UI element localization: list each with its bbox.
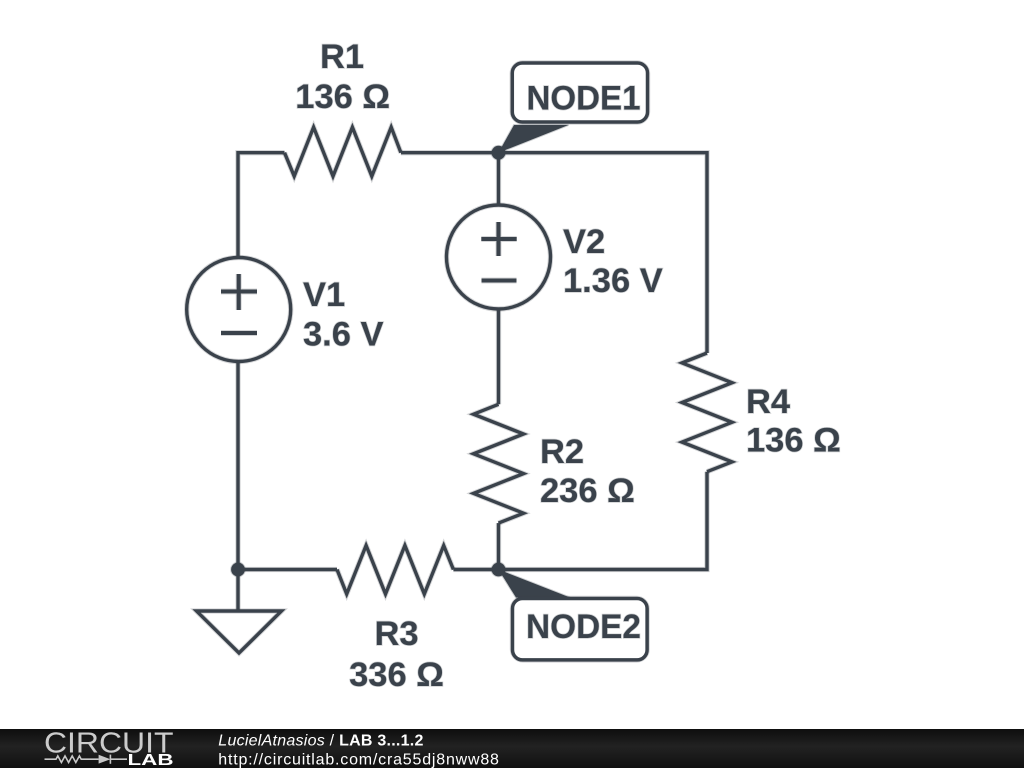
- svg-text:NODE1: NODE1: [527, 80, 641, 118]
- svg-text:R2: R2: [540, 433, 584, 471]
- svg-text:136 Ω: 136 Ω: [295, 78, 390, 116]
- svg-text:236 Ω: 236 Ω: [540, 472, 635, 510]
- svg-text:LucielAtnasios / LAB 3...1.2: LucielAtnasios / LAB 3...1.2: [218, 733, 423, 750]
- svg-text:R4: R4: [746, 383, 790, 421]
- svg-text:R3: R3: [374, 615, 418, 653]
- svg-text:NODE2: NODE2: [526, 608, 641, 646]
- svg-text:1.36 V: 1.36 V: [563, 262, 663, 300]
- svg-text:3.6 V: 3.6 V: [303, 315, 384, 353]
- svg-text:LAB: LAB: [128, 752, 174, 768]
- svg-text:136 Ω: 136 Ω: [746, 422, 841, 460]
- svg-text:http://circuitlab.com/cra55dj8: http://circuitlab.com/cra55dj8nww88: [218, 751, 499, 768]
- svg-text:V1: V1: [303, 276, 345, 314]
- svg-text:336 Ω: 336 Ω: [349, 656, 444, 694]
- svg-text:R1: R1: [320, 38, 364, 76]
- svg-text:V2: V2: [563, 223, 605, 261]
